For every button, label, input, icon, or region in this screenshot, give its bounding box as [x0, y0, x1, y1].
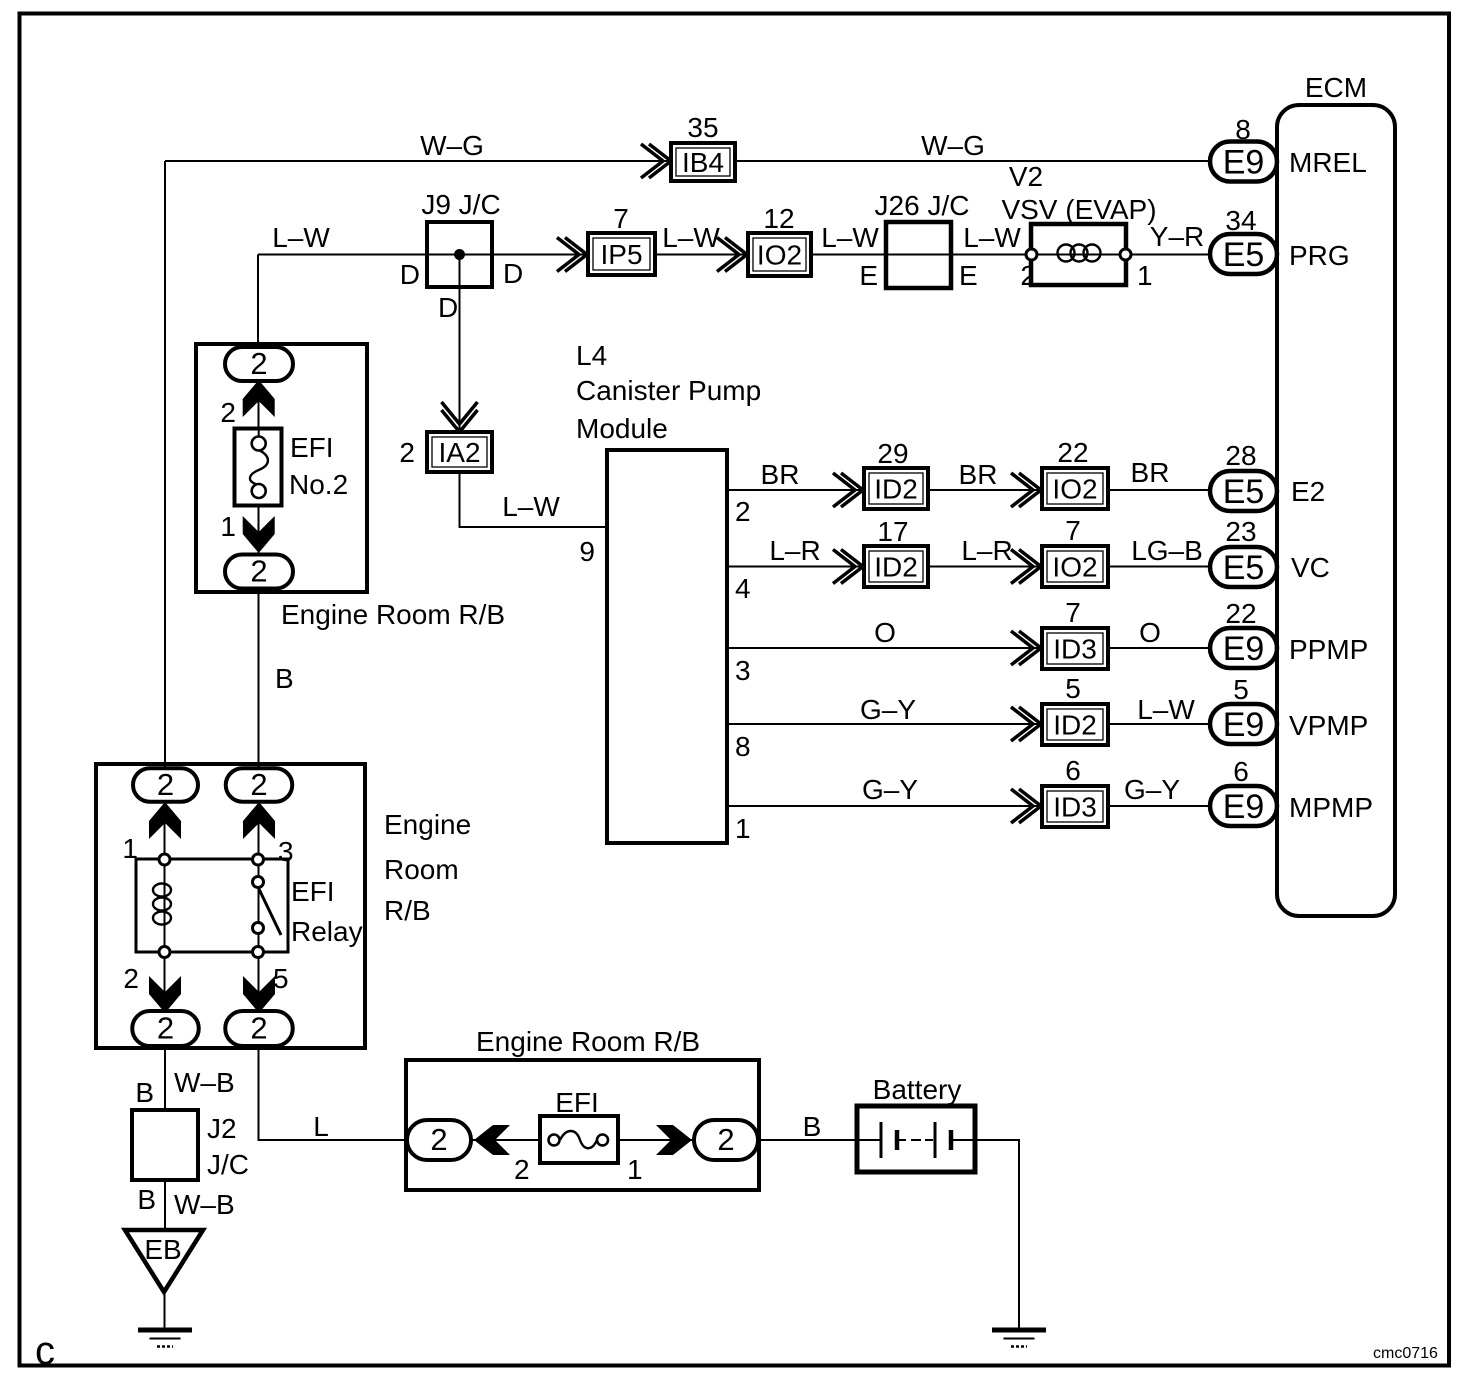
svg-text:E9: E9: [1223, 630, 1265, 668]
connector arrow left (EFI fuse pin2): [474, 1125, 510, 1155]
svg-text:ECM: ECM: [1305, 72, 1367, 103]
connector arrow into IP5: [557, 238, 587, 272]
ECM body U1: [1277, 105, 1395, 916]
engine room R/B block (EFI fuse): [406, 1060, 759, 1190]
svg-text:E5: E5: [1223, 549, 1265, 587]
relay node pin3: [253, 854, 264, 865]
connector arrow into ID2 (VC): [833, 550, 863, 584]
relay node pin2: [159, 947, 170, 958]
svg-text:V2: V2: [1009, 161, 1043, 192]
fuse EFI: [540, 1116, 618, 1163]
svg-text:E9: E9: [1223, 706, 1265, 744]
svg-text:cmc0716: cmc0716: [1373, 1345, 1438, 1362]
svg-text:Canister Pump: Canister Pump: [576, 375, 761, 406]
connector arrow down (relay pin2): [149, 976, 181, 1013]
svg-text:VC: VC: [1291, 552, 1330, 583]
svg-text:W–G: W–G: [921, 130, 985, 161]
svg-text:2: 2: [157, 767, 174, 802]
wire inside VSV: [1031, 254, 1126, 256]
svg-text:2: 2: [220, 397, 236, 428]
svg-text:J26 J/C: J26 J/C: [875, 190, 970, 221]
wire EFI No.2 to relay pin 3: [258, 348, 260, 769]
svg-text:c: c: [35, 1329, 55, 1373]
svg-text:EFI: EFI: [291, 876, 335, 907]
connector arrow into ID3 (PPMP): [1011, 631, 1041, 665]
svg-text:O: O: [874, 617, 896, 648]
connector code IP5: [588, 233, 655, 275]
svg-text:IB4: IB4: [682, 147, 724, 178]
svg-text:Battery: Battery: [873, 1074, 962, 1105]
connector arrow down (fuse pin 1): [243, 516, 275, 553]
battery BAT1: [857, 1106, 975, 1172]
connector arrow into ID2 (E2): [833, 473, 863, 507]
svg-text:2: 2: [250, 554, 267, 589]
svg-text:EFI: EFI: [555, 1087, 599, 1118]
svg-text:12: 12: [763, 203, 794, 234]
connector E9 PPMP: [1210, 628, 1277, 668]
svg-text:PRG: PRG: [1289, 240, 1350, 271]
wire module pin3 to E9 (PPMP net O): [727, 647, 1210, 649]
svg-text:E5: E5: [1223, 473, 1265, 511]
svg-text:22: 22: [1057, 437, 1088, 468]
connector arrow into ID3 (MPMP): [1011, 789, 1041, 823]
svg-text:J9 J/C: J9 J/C: [421, 189, 500, 220]
svg-text:D: D: [400, 259, 420, 290]
svg-text:2: 2: [399, 437, 415, 468]
connector code IO2 (PRG): [748, 233, 811, 276]
relay K1 EFI relay body: [136, 859, 288, 952]
fuse EFI No.2: [235, 428, 282, 506]
wire module pin4 to E5 (VC net L-R): [727, 566, 1210, 568]
relay node pin1: [159, 854, 170, 865]
svg-text:LG–B: LG–B: [1131, 535, 1203, 566]
connector code ID3 (PPMP): [1042, 628, 1108, 669]
ground EB triangle: [125, 1230, 203, 1292]
svg-text:6: 6: [1233, 756, 1249, 787]
connector arrow up (relay pin1): [149, 802, 181, 839]
svg-text:6: 6: [1065, 755, 1081, 786]
connector arrow into IO2 (VC): [1011, 550, 1041, 584]
svg-text:L–W: L–W: [272, 222, 330, 253]
svg-text:G–Y: G–Y: [1124, 774, 1180, 805]
svg-text:R/B: R/B: [384, 895, 431, 926]
connector pill 2 (relay pin1 top): [133, 767, 198, 802]
svg-text:2: 2: [430, 1122, 447, 1157]
svg-text:3: 3: [735, 655, 751, 686]
svg-text:L–W: L–W: [1137, 694, 1195, 725]
svg-text:L: L: [313, 1111, 329, 1142]
svg-text:E: E: [959, 260, 978, 291]
svg-text:B: B: [803, 1111, 822, 1142]
svg-text:L–W: L–W: [502, 491, 560, 522]
svg-text:E5: E5: [1223, 236, 1265, 274]
connector E5 VC: [1210, 547, 1277, 587]
inductor coil L (VSV): [1058, 245, 1101, 262]
L4 canister pump module body: [607, 450, 727, 843]
svg-text:B: B: [137, 1184, 156, 1215]
svg-text:D: D: [438, 292, 458, 323]
svg-text:1: 1: [220, 511, 236, 542]
svg-text:B: B: [275, 663, 294, 694]
connector code ID3 (MPMP): [1042, 786, 1108, 827]
connector arrow into IA2: [442, 402, 478, 432]
svg-text:ID2: ID2: [874, 552, 918, 583]
svg-text:W–G: W–G: [420, 130, 484, 161]
svg-text:D: D: [503, 258, 523, 289]
connector arrow up (relay pin3): [243, 802, 275, 839]
svg-text:E9: E9: [1223, 144, 1265, 182]
svg-text:IA2: IA2: [438, 437, 480, 468]
svg-text:Module: Module: [576, 413, 668, 444]
svg-text:2: 2: [250, 1011, 267, 1046]
svg-text:23: 23: [1225, 516, 1256, 547]
svg-text:5: 5: [273, 963, 289, 994]
svg-text:EFI: EFI: [290, 432, 334, 463]
connector code IA2: [427, 432, 492, 472]
svg-text:EB: EB: [144, 1234, 181, 1265]
svg-text:L–W: L–W: [821, 222, 879, 253]
svg-text:B: B: [135, 1077, 154, 1108]
svg-text:2: 2: [157, 1011, 174, 1046]
svg-text:ID3: ID3: [1053, 792, 1097, 823]
svg-text:1: 1: [735, 813, 751, 844]
connector E5 E2: [1210, 471, 1277, 511]
connector code ID2 (E2): [864, 468, 928, 509]
wire module pin2 to E5 (E2 net BR): [727, 489, 1210, 491]
connector pill 2 (relay pin2 bottom): [132, 1011, 199, 1047]
connector pill 2 (fuse top): [225, 346, 293, 381]
relay switch node upper: [253, 877, 264, 888]
relay node pin5: [253, 947, 264, 958]
connector pill 2 (relay pin3 top): [226, 767, 293, 802]
junction block J26 J/C: [886, 222, 951, 288]
engine room R/B block (EFI No.2): [196, 344, 367, 592]
svg-text:BR: BR: [959, 459, 998, 490]
svg-text:35: 35: [687, 112, 718, 143]
connector arrow into IO2 (PRG): [717, 238, 747, 272]
svg-text:W–B: W–B: [174, 1189, 235, 1220]
svg-text:ID3: ID3: [1053, 634, 1097, 665]
svg-text:22: 22: [1225, 598, 1256, 629]
wire relay vertical right (switch path): [258, 769, 260, 1048]
svg-text:Relay: Relay: [291, 916, 363, 947]
svg-text:MPMP: MPMP: [1289, 792, 1373, 823]
svg-text:L–R: L–R: [769, 535, 820, 566]
svg-text:Engine Room R/B: Engine Room R/B: [281, 599, 505, 630]
svg-text:8: 8: [735, 731, 751, 762]
wire L-W horizontal (PRG net): [258, 254, 1210, 256]
connector arrow up (fuse pin 2): [243, 380, 275, 417]
connector E5 PRG: [1210, 234, 1277, 274]
svg-text:E9: E9: [1223, 788, 1265, 826]
svg-text:O: O: [1139, 617, 1161, 648]
svg-text:E: E: [859, 260, 878, 291]
svg-text:VPMP: VPMP: [1289, 710, 1368, 741]
svg-text:IP5: IP5: [600, 239, 642, 270]
svg-text:L–W: L–W: [662, 222, 720, 253]
svg-text:Engine: Engine: [384, 809, 471, 840]
svg-text:2: 2: [250, 767, 267, 802]
svg-text:2: 2: [250, 346, 267, 381]
svg-text:7: 7: [613, 203, 629, 234]
relay switch blade: [258, 887, 281, 935]
svg-text:34: 34: [1225, 205, 1256, 236]
svg-text:BR: BR: [1131, 457, 1170, 488]
connector E9 VPMP: [1210, 704, 1277, 744]
svg-text:ID2: ID2: [874, 474, 918, 505]
svg-text:Y–R: Y–R: [1150, 221, 1204, 252]
svg-text:7: 7: [1065, 597, 1081, 628]
relay switch node lower: [253, 923, 264, 934]
terminal node VSV pin1: [1120, 249, 1131, 260]
svg-text:MREL: MREL: [1289, 147, 1367, 178]
svg-text:ID2: ID2: [1053, 710, 1097, 741]
connector pill 2 (EFI fuse right): [694, 1120, 758, 1160]
svg-text:IO2: IO2: [1052, 552, 1097, 583]
svg-text:G–Y: G–Y: [862, 774, 918, 805]
svg-text:L–W: L–W: [963, 222, 1021, 253]
svg-text:No.2: No.2: [289, 469, 348, 500]
svg-text:28: 28: [1225, 440, 1256, 471]
wire J9 to IA2 (D branch): [459, 255, 461, 433]
connector code ID2 (VPMP): [1042, 704, 1108, 745]
connector pill 2 (fuse bottom): [225, 554, 293, 589]
wire W-G horizontal (MREL net): [165, 160, 1210, 162]
chassis ground (EB): [138, 1330, 192, 1347]
wire module pin8 to E9 (VPMP net G-Y): [727, 723, 1210, 725]
connector code IB4: [671, 143, 735, 181]
svg-text:L–R: L–R: [961, 535, 1012, 566]
svg-text:1: 1: [1137, 260, 1153, 291]
svg-text:G–Y: G–Y: [860, 694, 916, 725]
wire relay pin5 to EFI fuse (L net): [259, 1048, 411, 1140]
terminal node VSV pin2: [1026, 249, 1037, 260]
wire module pin1 to E9 (MPMP net G-Y): [727, 805, 1210, 807]
svg-text:J/C: J/C: [207, 1149, 249, 1180]
node dot in J9: [454, 249, 465, 260]
connector arrow right (EFI fuse pin1): [656, 1125, 692, 1155]
connector code IO2 (E2): [1042, 468, 1108, 509]
svg-text:W–B: W–B: [174, 1067, 235, 1098]
wire EB apex to chassis ground: [164, 1292, 166, 1330]
connector arrow into IB4: [641, 144, 671, 178]
connector arrow down (relay pin5): [243, 976, 275, 1013]
svg-text:2: 2: [717, 1122, 734, 1157]
wire IA2 to canister pump module pin 9: [460, 472, 608, 527]
wire W-G vertical to EFI relay pin1: [164, 161, 166, 769]
svg-text:29: 29: [877, 438, 908, 469]
svg-text:J2: J2: [207, 1113, 237, 1144]
svg-text:VSV (EVAP): VSV (EVAP): [1001, 194, 1156, 225]
svg-text:2: 2: [735, 496, 751, 527]
chassis ground (battery): [992, 1330, 1046, 1347]
svg-text:9: 9: [579, 536, 595, 567]
connector pill 2 (EFI fuse left): [407, 1120, 471, 1160]
connector code IO2 (VC): [1042, 546, 1108, 587]
wire L-W vertical to EFI No.2 fuse: [257, 255, 259, 349]
svg-text:IO2: IO2: [1052, 474, 1097, 505]
connector E9 MREL: [1210, 142, 1277, 182]
svg-text:1: 1: [627, 1154, 643, 1185]
svg-text:5: 5: [1065, 673, 1081, 704]
connector E9 MPMP: [1210, 786, 1277, 826]
wire relay pin2 to J2 J/C: [164, 1048, 166, 1111]
wire EFI fuse to battery (B net): [759, 1139, 859, 1141]
svg-text:Room: Room: [384, 854, 459, 885]
junction block J9 J/C: [427, 222, 492, 287]
svg-text:E2: E2: [1291, 476, 1325, 507]
VSV (EVAP) solenoid valve V1: [1031, 224, 1126, 285]
wire inside bottom block: [410, 1139, 759, 1141]
svg-text:L4: L4: [576, 340, 607, 371]
svg-text:4: 4: [735, 573, 751, 604]
wire relay vertical left (coil path): [164, 769, 166, 1048]
svg-text:7: 7: [1065, 515, 1081, 546]
svg-text:5: 5: [1233, 674, 1249, 705]
svg-text:BR: BR: [761, 459, 800, 490]
connector pill 2 (relay pin5 bottom): [225, 1011, 293, 1047]
svg-text:17: 17: [877, 516, 908, 547]
svg-text:IO2: IO2: [757, 240, 802, 271]
svg-text:2: 2: [514, 1154, 530, 1185]
svg-text:2: 2: [123, 963, 139, 994]
wire battery to chassis ground: [973, 1140, 1019, 1330]
junction block J2 J/C: [132, 1110, 198, 1180]
connector code ID2 (VC): [864, 546, 928, 587]
svg-text:PPMP: PPMP: [1289, 634, 1368, 665]
connector arrow into IO2 (E2): [1011, 473, 1041, 507]
wire J2 J/C to EB ground: [164, 1180, 166, 1231]
svg-text:3: 3: [278, 836, 294, 867]
relay coil: [153, 884, 171, 925]
svg-text:Engine Room R/B: Engine Room R/B: [476, 1026, 700, 1057]
engine room R/B block (EFI relay): [96, 764, 365, 1048]
connector arrow into ID2 (VPMP): [1011, 707, 1041, 741]
